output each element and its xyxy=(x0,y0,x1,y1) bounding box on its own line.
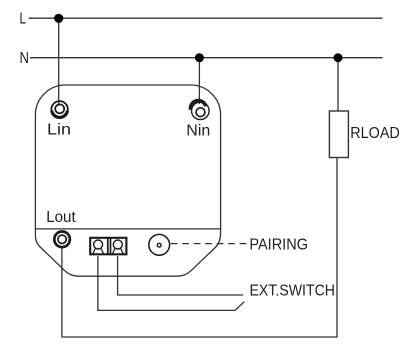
svg-text:EXT.SWITCH: EXT.SWITCH xyxy=(250,283,336,300)
resistor RLOAD xyxy=(329,111,348,158)
svg-text:RLOAD: RLOAD xyxy=(350,125,400,142)
svg-text:Lout: Lout xyxy=(46,209,76,226)
wire EXT right to leader xyxy=(118,256,244,295)
junction dot on L xyxy=(54,14,63,23)
svg-text:Lin: Lin xyxy=(47,122,71,139)
junction dot N at RLOAD tap xyxy=(334,53,343,62)
terminal Lout xyxy=(54,232,70,248)
svg-text:N: N xyxy=(20,50,30,67)
wire RLOAD bottom to Lout xyxy=(62,158,337,338)
pairing button xyxy=(149,234,170,255)
wire N to Nin xyxy=(198,58,200,104)
device box terminal strip line xyxy=(35,228,220,230)
svg-text:Nin: Nin xyxy=(186,123,210,140)
svg-text:PAIRING: PAIRING xyxy=(249,237,308,254)
wire L to Lin xyxy=(58,18,60,106)
device box outline xyxy=(35,85,220,276)
junction dot N at Nin tap xyxy=(195,53,204,62)
terminal Nin xyxy=(190,101,209,120)
terminal Lin xyxy=(51,101,67,117)
wire N line xyxy=(30,57,383,59)
svg-text:L: L xyxy=(20,10,27,27)
wire EXT left to leader xyxy=(98,256,244,310)
wire N to RLOAD xyxy=(337,58,339,111)
wire L line xyxy=(29,17,383,19)
dashed leader to PAIRING xyxy=(171,243,247,245)
connector block EXT xyxy=(90,237,126,255)
